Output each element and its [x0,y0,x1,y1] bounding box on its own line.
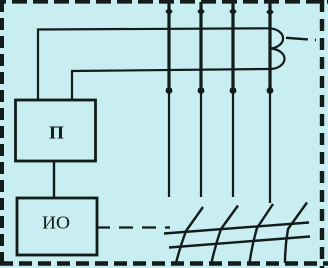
grounding grid: slanted conductor 1 [176,207,203,263]
junction dot on feeder 4 lower [267,87,274,94]
dashed boundary frame: bottom edge [0,261,328,266]
junction diamond on feeder 2 top [197,8,205,16]
junction dot on feeder 1 lower [166,87,173,94]
dashed control link from ИО to grounding grid [96,226,170,228]
winding (two-loop coil) on feeder 4 [270,28,285,69]
grounding grid: long conductor A [164,223,309,234]
junction diamond on feeder 1 top [165,8,173,16]
box ИО (actuating element) [17,198,97,255]
feeder line 3 (lower section) [232,92,234,197]
wire between П and ИО [53,161,55,198]
wire from box П up and right to winding top (node A) [38,28,270,100]
wire from box П up and right to winding bottom (node B) [72,69,270,100]
grounding grid: slanted conductor 3 [250,204,274,263]
svg-text:П: П [49,122,64,142]
junction dot on feeder 2 lower [198,87,205,94]
grounding grid: slanted conductor 2 [212,206,239,264]
feeder line 2 (lower section) [200,92,202,197]
feeder line 1 (lower section) [168,92,170,197]
grounding grid: long conductor B [169,237,310,248]
box П (converter) [16,100,96,161]
feeder line 1 (thick upper section) [167,2,170,92]
junction diamond on feeder 4 top [266,8,274,16]
feeder line 4 (lower section) [269,92,271,203]
junction dot on feeder 3 lower [230,87,237,94]
dashed boundary frame: right edge [320,0,324,268]
grounding grid: slanted conductor 4 [285,203,307,264]
svg-text:ИО: ИО [42,213,70,233]
dashed boundary frame: left edge [0,0,4,268]
feeder line 3 (thick upper section) [231,2,234,92]
dashed boundary frame: top edge [0,0,328,4]
feeder line 4 (thick upper section) [268,2,271,92]
feeder line 2 (thick upper section) [199,2,202,92]
junction diamond on feeder 3 top [229,8,237,16]
dashed tap line from winding to frame [286,38,316,40]
